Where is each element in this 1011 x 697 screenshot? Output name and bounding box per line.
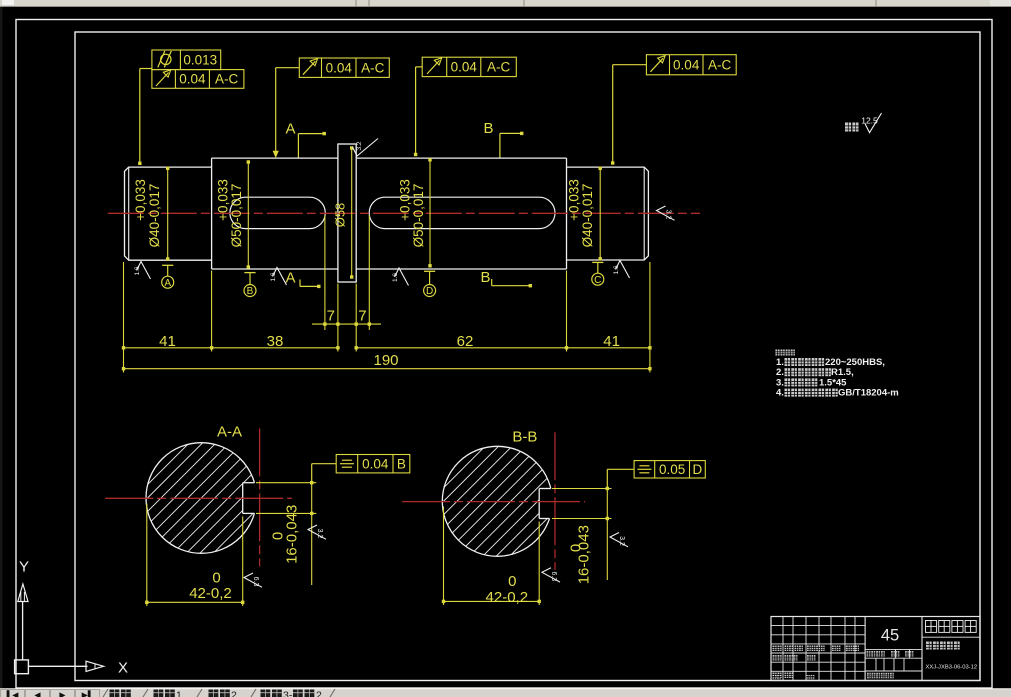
svg-text:7: 7 [358,307,366,324]
svg-text:A-C: A-C [361,60,385,75]
svg-text:A: A [285,120,295,137]
svg-text:Ø50-0,017: Ø50-0,017 [411,184,426,248]
svg-text:42-0,2: 42-0,2 [189,585,232,602]
svg-text:0.04: 0.04 [362,456,389,471]
svg-text:0.04: 0.04 [451,60,478,75]
svg-text:3.2: 3.2 [356,141,363,150]
svg-text:A-C: A-C [215,72,239,87]
svg-text:1.6: 1.6 [392,273,399,282]
svg-text:D: D [693,462,703,477]
svg-text:GB/T18204-m: GB/T18204-m [838,388,899,399]
svg-text:0.05: 0.05 [659,462,685,477]
svg-text:42-0,2: 42-0,2 [486,589,529,606]
svg-text:+0,033: +0,033 [133,179,148,221]
svg-text:1.6: 1.6 [270,272,277,281]
svg-text:3-: 3- [283,690,293,697]
svg-text:A: A [285,269,295,286]
svg-text:4.: 4. [776,388,784,399]
svg-text:▶: ▶ [59,691,66,697]
svg-text:◀: ◀ [34,691,41,697]
svg-text:A-C: A-C [487,60,511,75]
svg-text:41: 41 [159,333,176,350]
svg-text:B-B: B-B [512,429,537,446]
svg-text:Ø50-0,017: Ø50-0,017 [229,184,244,248]
svg-text:0: 0 [212,570,220,587]
svg-text:0.04: 0.04 [179,72,206,87]
svg-text:12.5: 12.5 [861,116,878,126]
svg-text:▌◀: ▌◀ [7,690,20,697]
svg-text:1: 1 [176,690,182,697]
svg-text:3.2: 3.2 [618,536,625,546]
svg-text:0.04: 0.04 [326,60,353,75]
svg-text:B: B [397,456,406,471]
svg-text:Ø58: Ø58 [332,203,347,228]
svg-text:38: 38 [267,333,284,350]
svg-text:B: B [247,286,254,297]
svg-text:6.3: 6.3 [252,577,259,587]
svg-text:0.04: 0.04 [673,58,700,73]
svg-text:▶▌: ▶▌ [82,690,94,697]
svg-text:3.2: 3.2 [665,210,672,220]
svg-text:B: B [483,120,493,137]
svg-text:0: 0 [508,573,516,590]
svg-text:1.6: 1.6 [134,266,141,275]
svg-text:2: 2 [231,690,237,697]
svg-text:A-C: A-C [708,58,732,73]
svg-text:Y: Y [19,559,29,576]
svg-text:41: 41 [603,333,620,350]
svg-text:45: 45 [881,627,899,645]
svg-text:2: 2 [316,690,322,697]
svg-text:A-A: A-A [217,424,242,441]
svg-text:B: B [480,269,490,286]
svg-text:1.6: 1.6 [613,265,620,274]
svg-text:190: 190 [373,352,398,369]
svg-text:C: C [594,275,601,286]
svg-text:3.2: 3.2 [316,529,323,539]
svg-text:Ø40-0,017: Ø40-0,017 [147,184,162,248]
svg-text:16-0,043: 16-0,043 [575,525,592,584]
svg-text:A: A [164,278,171,289]
svg-text:16-0,043: 16-0,043 [283,505,300,564]
svg-text:X: X [118,660,128,677]
svg-text:XXJ-JXB3-06-03-12: XXJ-JXB3-06-03-12 [926,665,978,671]
svg-text:7: 7 [327,307,335,324]
svg-text:6.3: 6.3 [550,571,557,581]
svg-text:0.013: 0.013 [183,53,217,68]
svg-text:Ø40-0,017: Ø40-0,017 [580,184,595,248]
svg-text:62: 62 [457,333,474,350]
svg-text:D: D [426,286,433,297]
